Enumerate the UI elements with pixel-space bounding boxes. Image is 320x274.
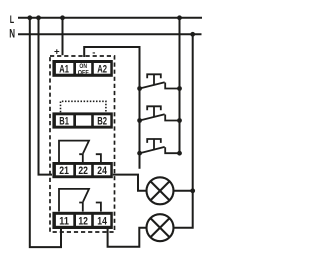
svg-text:N: N — [9, 27, 15, 41]
wire L to A1 (+) — [62, 18, 64, 55]
fixed contact hook 14 — [96, 203, 101, 212]
svg-text:-: - — [92, 47, 95, 58]
junction L / wire to A1 — [60, 15, 65, 20]
terminal row 21 / 22 / 24 — [52, 162, 112, 178]
svg-text:14: 14 — [97, 216, 107, 228]
terminal row B1 / B2 — [52, 112, 112, 128]
svg-text:+: + — [54, 47, 60, 58]
wire terminal 24 to lamp E1 — [113, 175, 147, 191]
push-button S2 — [140, 106, 180, 120]
svg-text:OFF: OFF — [78, 69, 89, 76]
junction S3 contact — [177, 151, 182, 156]
push-button S3 — [140, 139, 180, 153]
push-button S1 — [140, 74, 180, 88]
svg-text:L: L — [10, 14, 15, 26]
svg-text:24: 24 — [97, 165, 107, 177]
junction L / wire to 21 — [36, 15, 41, 20]
lamp E1 — [147, 177, 174, 204]
junction L / wire to 11 — [27, 15, 32, 20]
wire L down to push-button contacts (right column) — [179, 18, 181, 153]
coupling link (dotted box) between B1 and B2 — [61, 101, 106, 112]
svg-text:12: 12 — [78, 216, 88, 228]
wire L to terminal 11 (left outer loop) — [30, 18, 61, 247]
terminal row A1 / ON-OFF / A2 — [52, 60, 112, 77]
junction L / push-button column — [177, 15, 182, 20]
device outline (dashed box) — [50, 56, 115, 232]
changeover contact 11-12-14 — [59, 189, 101, 212]
svg-text:A1: A1 — [59, 64, 69, 76]
contact common 11 riser — [59, 189, 89, 212]
wire A2 (-) up and over to push-button column — [84, 47, 139, 169]
svg-text:A2: A2 — [97, 64, 107, 76]
wire L to terminal 21 — [39, 18, 53, 175]
junction lamp E1 / N column — [190, 188, 195, 193]
wire L bus — [18, 17, 202, 19]
junction N / lamp column — [190, 32, 195, 37]
svg-text:11: 11 — [59, 216, 69, 228]
contact common 21 riser — [59, 141, 89, 162]
wire N down to lamps (right side) — [173, 34, 193, 227]
fixed contact hook 24 — [96, 154, 101, 162]
wire N bus — [18, 33, 202, 35]
junction S1 pole — [137, 86, 142, 91]
lamp E2 — [147, 214, 174, 241]
terminal row 11 / 12 / 14 — [52, 212, 112, 229]
fixed contact hook 12 — [79, 203, 83, 212]
svg-text:22: 22 — [78, 165, 88, 177]
wire terminal 14 to lamp E2 — [108, 228, 147, 247]
svg-text:21: 21 — [59, 165, 69, 177]
junction S2 pole — [137, 118, 142, 123]
junction S1 contact — [177, 86, 182, 91]
junction S3 pole — [137, 151, 142, 156]
wire lamp 1 right to N column — [173, 190, 193, 192]
changeover contact 21-22-24 — [59, 141, 101, 162]
svg-text:B1: B1 — [59, 116, 69, 128]
fixed contact hook 22 — [79, 154, 83, 162]
junction S2 contact — [177, 118, 182, 123]
svg-text:B2: B2 — [97, 116, 107, 128]
